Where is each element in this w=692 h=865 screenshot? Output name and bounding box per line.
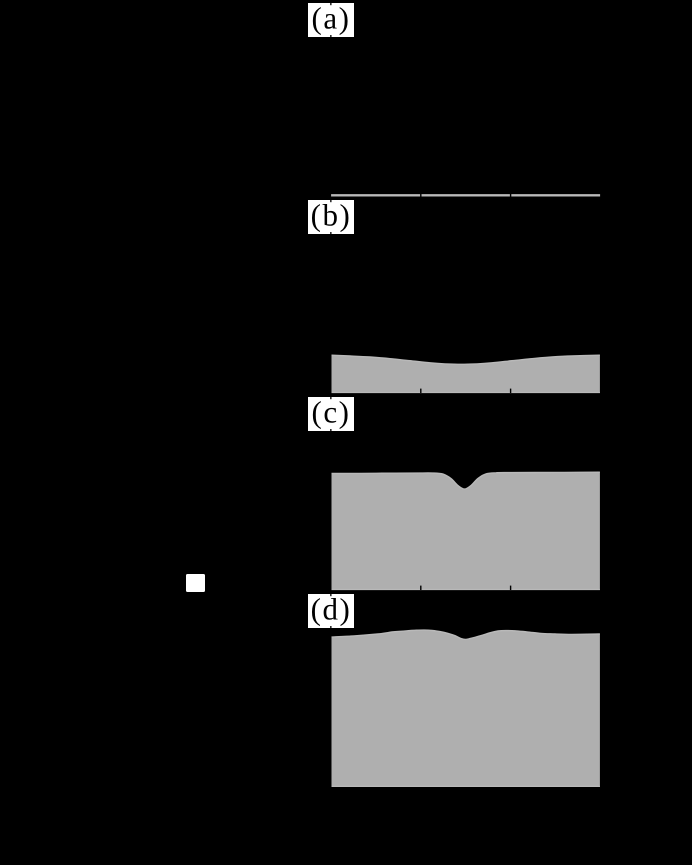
panel (c): gray film fill [332,472,600,590]
panel (a) x-tick 2 crossing the line [510,191,511,197]
svg-text:(a): (a) [312,0,351,35]
panel label (d) [308,591,354,628]
panel label (a) [308,0,354,37]
svg-text:(d): (d) [311,591,352,626]
spine notch bottom (b) [330,232,331,235]
panel (c) x-tick 1 [420,586,421,590]
panel (c): surface curve line [332,472,600,489]
panel (c) x-tick 2 [510,586,511,590]
svg-text:(b): (b) [311,197,352,232]
spine notch top (c) [330,397,331,400]
svg-text:(c): (c) [312,394,351,429]
panel (a): flat surface line h=0 [331,194,600,196]
panel (a) x-tick 1 crossing the line [420,191,421,197]
panel (d): gray film fill [332,630,600,787]
legend key square [186,574,205,592]
panel (c): substrate line h=0 [332,589,600,591]
spine notch top (b) [330,200,331,203]
spine notch bottom (d) [330,626,331,629]
spine notch top (d) [330,594,331,597]
panel (b): substrate line h=0 [332,392,600,394]
panel (b) x-tick 2 [510,389,511,393]
panel (b): surface curve line [332,355,600,364]
panel (b) x-tick 1 [420,389,421,393]
spine notch bottom (c) [330,429,331,432]
panel label (b) [308,197,354,234]
panel (b): gray film fill [332,355,600,393]
panel (d): surface curve line [332,630,600,639]
spine notch top (a) [330,3,331,6]
spine notch bottom (a) [330,35,331,38]
panel label (c) [308,394,354,431]
panel (d): substrate line h=0 [332,785,600,787]
